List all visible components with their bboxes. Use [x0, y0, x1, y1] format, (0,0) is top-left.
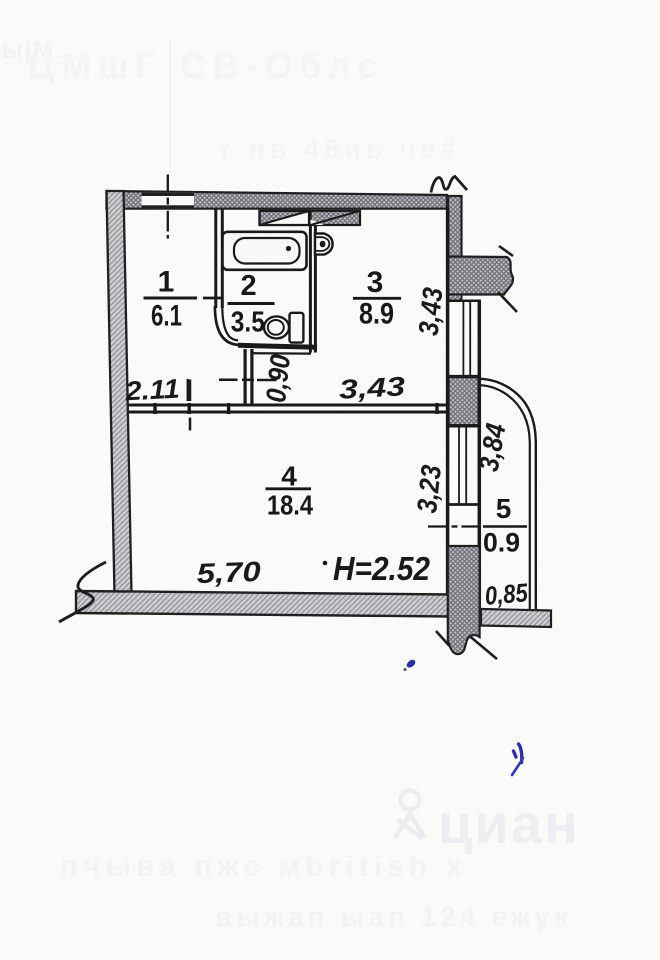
- blue pen mark 2: [514, 744, 522, 763]
- toilet: [290, 313, 304, 343]
- pier between windows: [449, 377, 479, 425]
- right wall outer edge line: [478, 301, 482, 610]
- bottom wall: [76, 591, 449, 617]
- watermark bottom: cian person icon: [395, 791, 425, 839]
- right wall upper column: [448, 196, 462, 257]
- scan fold streak: [169, 38, 171, 168]
- top-right break squiggle: [431, 177, 467, 193]
- balcony inner curve: [481, 385, 530, 609]
- right wall continuous inner edge: [446, 209, 450, 595]
- vent box B2: [311, 211, 361, 225]
- bathroom left partition (double line): [214, 209, 217, 309]
- entrance door opening in top wall: [142, 193, 195, 209]
- pier break ticks: [436, 631, 450, 646]
- right wall stub: [448, 257, 513, 295]
- blue pen mark 1: [407, 660, 416, 668]
- column piece below stub: [448, 295, 462, 302]
- corridor door axis dash-dot: [219, 379, 277, 382]
- dim axis at 2.11: [189, 380, 192, 402]
- entrance door axis (dash-dot): [167, 175, 169, 239]
- bottom-left break squiggle: [59, 562, 106, 622]
- balcony window W2: [446, 426, 481, 504]
- bathtub: [223, 232, 307, 270]
- kitchen window W1: [446, 301, 481, 376]
- stub break ticks: [499, 246, 513, 256]
- corridor left stub (double line): [244, 349, 247, 406]
- kitchen sink: [315, 234, 333, 255]
- blue tick near watermark: [512, 758, 523, 775]
- balcony outer curve: [481, 379, 536, 609]
- vent box B1: [260, 211, 310, 225]
- bottom-right extension wall: [481, 609, 551, 627]
- top wall: [107, 191, 448, 209]
- segmented partition rooms|room4: [129, 405, 447, 412]
- balcony dash-dot boundary: [428, 525, 480, 527]
- partition separators: [155, 403, 437, 414]
- bottom-right pier: [448, 546, 480, 654]
- left wall: [107, 191, 132, 595]
- H=2.52: [323, 561, 328, 566]
- corridor top inner edge: [252, 352, 311, 355]
- partition bathroom|kitchen (double line): [309, 225, 312, 353]
- bathroom door axis dash: [203, 297, 222, 300]
- bathroom rounded corner + bottom wall: [215, 306, 240, 345]
